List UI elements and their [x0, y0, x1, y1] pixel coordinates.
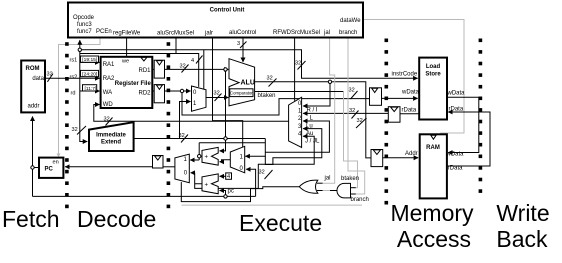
stage labels — [2, 200, 550, 252]
wire: jalr select — [213, 38, 243, 148]
wire: imm wrap to Lu input — [265, 121, 329, 152]
svg-text:instrCode: instrCode — [392, 72, 418, 78]
svg-text:Fetch: Fetch — [2, 206, 60, 232]
wire: regFileWe down into register file — [126, 38, 128, 57]
svg-text:Au: Au — [306, 131, 313, 137]
svg-text:jalr: jalr — [204, 31, 213, 37]
svg-text:addr: addr — [28, 104, 40, 110]
slash ROM data — [47, 74, 53, 82]
svg-text:btaken: btaken — [341, 176, 359, 182]
wire: pc bottom rail — [33, 195, 256, 197]
svg-text:Comparator: Comparator — [230, 90, 253, 95]
control unit U-CTRL — [68, 3, 363, 38]
svg-text:32: 32 — [295, 60, 301, 66]
Load Store — [419, 58, 447, 120]
immediate extend — [89, 122, 134, 151]
wire: RD1 to pipeline reg D1 — [152, 68, 154, 70]
wire: branch target result line — [199, 142, 265, 144]
wire: pipeline reg F to PC input — [65, 166, 152, 168]
wire: ALU result to Addr pipeline reg — [255, 82, 371, 158]
wire: node pc circle to PC left — [33, 167, 40, 169]
wire: writeback bus to register file WD — [94, 105, 289, 122]
wire: rs1 tap to RA1 — [80, 61, 100, 63]
svg-text:4: 4 — [191, 58, 194, 64]
svg-text:PCEn: PCEn — [96, 29, 112, 35]
wire: pc rail up to jalr mux input 0 — [246, 169, 255, 196]
wire: branch target wrap to Au input — [265, 129, 322, 165]
RAM — [420, 134, 447, 198]
adder branch-target (left-facing) — [202, 147, 218, 165]
ALU U-ALU — [229, 59, 255, 106]
svg-text:4: 4 — [227, 174, 230, 180]
svg-text:func7: func7 — [77, 29, 92, 35]
wire: RAM rData to Load Store rData — [447, 112, 490, 166]
svg-text:32: 32 — [349, 108, 355, 114]
wire: pc+4 wrap to J/JL input — [195, 136, 315, 188]
wire: jal (gray) to OR gate — [323, 38, 335, 184]
svg-text:rs2: rs2 — [70, 75, 78, 81]
svg-text:Addr: Addr — [405, 151, 418, 157]
svg-text:jal: jal — [324, 176, 331, 182]
svg-text:Immediate: Immediate — [96, 133, 126, 139]
svg-text:Register File: Register File — [115, 81, 152, 87]
wire: branch (gray) to AND gate — [348, 38, 365, 195]
AND gate — [337, 183, 351, 198]
svg-text:wData: wData — [401, 90, 420, 96]
wire: Load Store wData out to RAM wData — [447, 97, 479, 152]
OR gate — [299, 180, 318, 193]
svg-text:RD2: RD2 — [138, 91, 151, 97]
svg-text:RFWDSrcMuxSel: RFWDSrcMuxSel — [273, 30, 320, 36]
wire: pc+4 adder out to fetch mux input 0 — [191, 172, 195, 174]
wire: pipeline reg M2 to RAM Addr — [383, 157, 418, 159]
svg-text:[19:15]: [19:15] — [82, 57, 98, 63]
wire: ALU result tap to writeback mux input 0 — [303, 82, 330, 106]
svg-text:RAM: RAM — [426, 145, 440, 151]
svg-text:Back: Back — [496, 226, 548, 252]
svg-text:Decode: Decode — [77, 206, 156, 232]
comparator — [230, 89, 253, 97]
wire: fetch mux output to pipeline reg F — [163, 166, 175, 168]
svg-text:32: 32 — [214, 91, 220, 97]
wire: AND output to OR input — [330, 190, 338, 192]
wire: load return (L) to writeback mux input 1 — [303, 112, 388, 114]
svg-text:wData: wData — [447, 91, 466, 97]
svg-text:RA1: RA1 — [103, 62, 115, 68]
svg-text:wData: wData — [446, 152, 465, 158]
svg-text:dataWe: dataWe — [340, 18, 361, 24]
wire: jalr mux output to branch adder — [220, 160, 231, 162]
svg-text:32: 32 — [267, 76, 273, 82]
wire: const 4 to pc+4 adder — [220, 175, 226, 177]
mux aluSrc (2:1, right-facing) — [192, 86, 207, 111]
wire: btaken from comparator to AND gate — [253, 91, 344, 93]
wire: aluControl to ALU top — [242, 38, 244, 63]
svg-text:Control Unit: Control Unit — [210, 8, 245, 14]
svg-text:[11:7]: [11:7] — [85, 86, 98, 92]
wire: RD1 bus to ALU input 1 — [165, 68, 229, 70]
wire: branch adder out to fetch mux input 1 — [190, 159, 199, 161]
svg-text:rData: rData — [448, 166, 463, 172]
svg-text:32: 32 — [179, 133, 185, 139]
wire: or gate output to fetch mux select — [181, 182, 299, 202]
svg-text:+: + — [205, 183, 209, 189]
PC — [39, 158, 63, 178]
wire: instrCode bus to Load Store — [80, 50, 418, 79]
ROM — [21, 61, 45, 113]
wire: dataWe (gray) to RAM — [363, 20, 464, 135]
svg-text:32: 32 — [349, 88, 355, 94]
svg-text:branch: branch — [351, 197, 369, 203]
wire: RD1 tap down to branch adder — [220, 69, 226, 150]
wire: ROM data bus to RA2 — [45, 77, 100, 79]
pipeline register M1 (wData) — [370, 88, 382, 106]
svg-text:func3: func3 — [77, 22, 92, 28]
svg-text:R / I: R / I — [307, 108, 318, 114]
svg-text:ALU: ALU — [241, 80, 255, 87]
svg-text:32: 32 — [259, 169, 265, 175]
wire: pc tap to pc+4 adder — [220, 191, 226, 197]
svg-text:aluControl: aluControl — [229, 30, 256, 36]
mux input labels — [305, 108, 320, 145]
junction nodes (open circles) — [31, 48, 332, 198]
svg-text:rd: rd — [71, 91, 76, 97]
wire: Load Store rData out to pipeline reg W1 — [400, 113, 419, 115]
wire: pipeline reg M1 to Load Store wData — [382, 97, 418, 99]
node: instruction field labels — [70, 56, 99, 97]
mux fetch (2:1, left-facing) — [175, 154, 189, 183]
wire: imm tap up to aluSrc mux input 1 — [180, 102, 191, 139]
wire: wData from RD2 to pipeline reg M1 — [182, 91, 370, 115]
wire: adder output stub — [199, 155, 202, 157]
wire: rd tap to WA — [80, 90, 100, 92]
wire: PCEn (gray) control unit to PC enable — [59, 38, 101, 155]
svg-text:Memory: Memory — [390, 200, 474, 226]
svg-text:branch: branch — [339, 30, 357, 36]
pipeline separator dots — [65, 39, 482, 209]
svg-text:WA: WA — [103, 90, 112, 96]
svg-text:RD1: RD1 — [138, 68, 151, 74]
svg-text:+: + — [205, 155, 209, 161]
mux jalr (2:1, left-facing) — [230, 146, 244, 173]
svg-text:Load: Load — [426, 64, 441, 70]
svg-text:Access: Access — [397, 226, 471, 252]
pipeline register M2 (Addr) — [371, 150, 383, 167]
svg-text:pc: pc — [228, 189, 234, 195]
svg-text:data: data — [32, 76, 44, 82]
pipeline register W1 (rData) — [388, 107, 400, 123]
slash imm input — [77, 126, 86, 135]
svg-text:ROM: ROM — [26, 66, 40, 72]
wire: gray run under execute — [182, 204, 363, 206]
pipeline register D1 (RD1) — [154, 60, 164, 78]
adder pc+4 (left-facing) — [202, 174, 218, 194]
svg-text:rData: rData — [449, 107, 464, 113]
svg-text:en: en — [53, 160, 59, 166]
wire: instruction vertical to control unit — [79, 40, 81, 78]
svg-text:32: 32 — [72, 127, 78, 133]
svg-text:Opcode: Opcode — [73, 15, 95, 21]
wire: immediate bus — [134, 138, 266, 140]
wire: aluSrc mux out to ALU input 2 — [206, 97, 228, 99]
mux RFWDSrc (5:1, left-facing) — [289, 97, 302, 147]
svg-text:[24:20]: [24:20] — [82, 72, 98, 78]
svg-text:aluSrcMuxSel: aluSrcMuxSel — [157, 31, 194, 37]
wire: pc feedback vertical to ROM addr — [32, 117, 34, 197]
svg-text:WD: WD — [103, 102, 114, 108]
svg-text:rData: rData — [402, 108, 417, 114]
memory side labels — [392, 72, 466, 172]
svg-text:PC: PC — [45, 167, 54, 173]
svg-text:3: 3 — [237, 41, 240, 47]
wire: RFWDSrcMuxSel down to writeback mux — [294, 38, 296, 101]
svg-text:jal: jal — [323, 30, 330, 36]
svg-text:we: we — [121, 59, 129, 65]
svg-text:J / JL: J / JL — [305, 139, 320, 145]
register file — [101, 57, 153, 108]
constant 4 — [226, 173, 232, 180]
wire: imm down to jalr mux input 1 — [245, 139, 265, 157]
svg-text:btaken: btaken — [258, 93, 276, 99]
svg-text:Write: Write — [496, 200, 549, 226]
wire: RD2 bus to aluSrc mux input 0 — [165, 90, 191, 92]
wire: instruction vertical down to immediate extend — [80, 78, 87, 141]
svg-text:Execute: Execute — [239, 210, 322, 236]
svg-text:Extend: Extend — [101, 140, 121, 146]
pipeline register F (next pc) — [153, 156, 164, 169]
svg-text:Store: Store — [425, 72, 441, 78]
svg-text:RA2: RA2 — [103, 76, 115, 82]
svg-text:rs1: rs1 — [70, 58, 78, 64]
wire: RD2 to pipeline reg D2 — [152, 90, 154, 92]
wire: horizontal line y53.5 (aluSrcMuxSel run) — [80, 54, 199, 87]
svg-text:regFileWe: regFileWe — [113, 31, 141, 37]
pipeline register D2 (RD2) — [154, 85, 164, 103]
svg-text:Lu: Lu — [306, 124, 313, 130]
